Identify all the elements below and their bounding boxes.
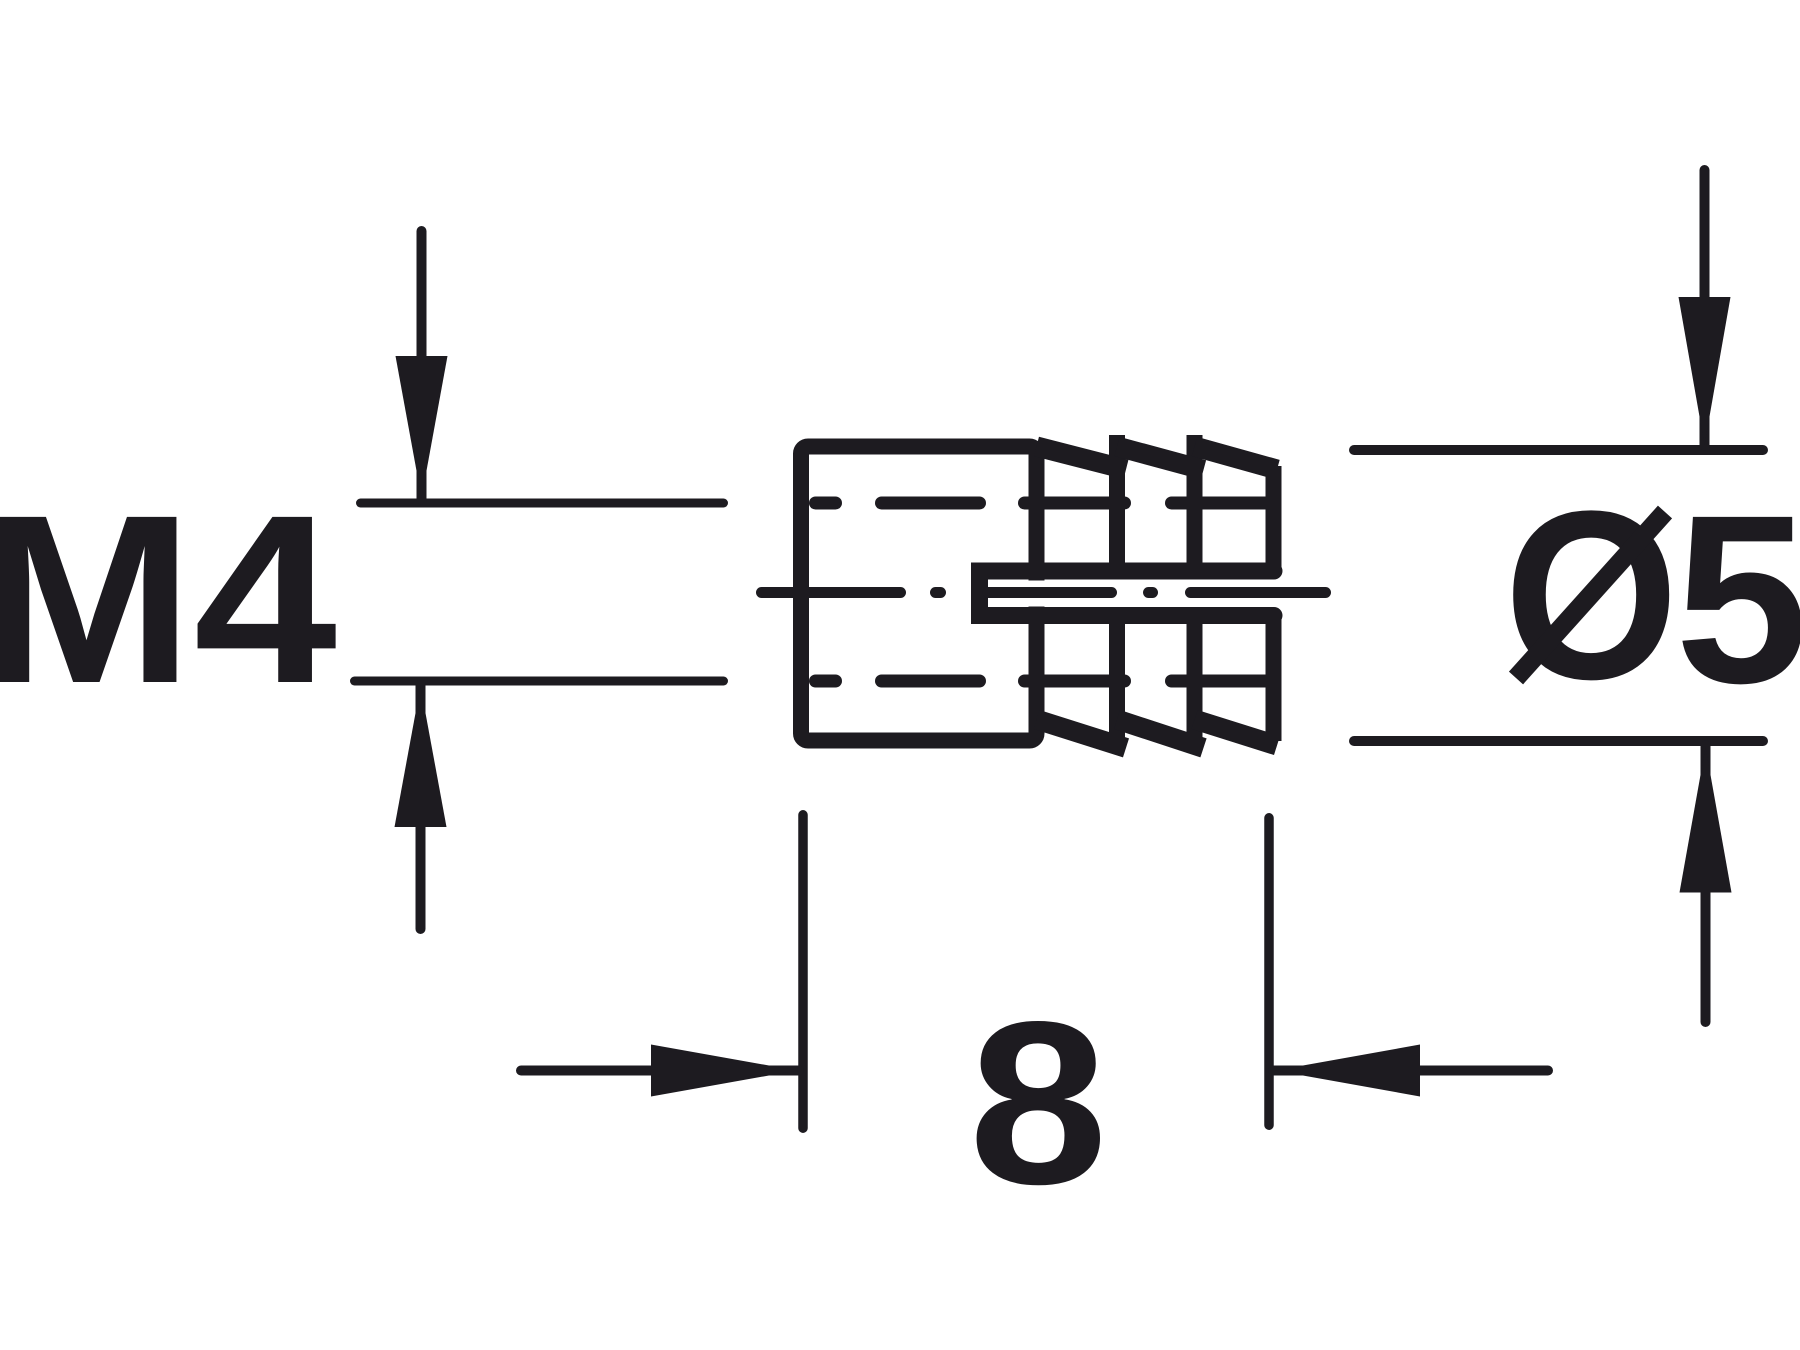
8 dimension arrow right head <box>1275 1045 1420 1097</box>
thread dashed line top <box>816 497 1268 510</box>
M4 dimension arrow top head <box>396 356 448 498</box>
svg-text:8: 8 <box>969 974 1108 1233</box>
slash of diameter symbol <box>1516 512 1665 678</box>
M4 dimension arrow top shaft <box>417 231 427 500</box>
right edge top <box>1266 466 1282 571</box>
expansion slot <box>980 571 1275 616</box>
Ø5 dimension arrow bottom shaft <box>1701 745 1711 1022</box>
M4 extension line top <box>361 499 724 508</box>
Ø5 dimension arrow bottom head <box>1680 747 1732 893</box>
rib fin 1 top diagonal <box>1037 447 1127 470</box>
M4 dimension arrow bottom head <box>395 686 447 827</box>
rib fin 3 bottom staff <box>1187 616 1203 752</box>
8 dimension arrow left head <box>651 1045 797 1097</box>
centerline dash-dot <box>762 587 1326 598</box>
rib fin 2 bottom staff <box>1109 616 1125 752</box>
right edge bottom <box>1266 616 1282 742</box>
rib fin 2 top diagonal <box>1117 447 1204 470</box>
rib fin 3 top diagonal <box>1195 447 1278 470</box>
slot channel interior <box>988 581 1266 607</box>
8 extension line right <box>1264 818 1274 1125</box>
rib fin 3 top staff <box>1187 435 1203 571</box>
8 dimension arrow right shaft <box>1273 1066 1548 1076</box>
rib fin 1 bottom diagonal <box>1037 720 1127 748</box>
svg-text:M4: M4 <box>0 465 337 733</box>
Ø5 extension line top <box>1354 445 1763 455</box>
Ø5 dimension arrow top head <box>1679 297 1731 445</box>
Ø5 dimension arrow top shaft <box>1700 170 1710 446</box>
rib fin 2 top staff <box>1109 435 1125 571</box>
Ø5 extension line bottom <box>1354 736 1763 746</box>
rib fin 3 bottom diagonal <box>1195 720 1278 746</box>
M4 extension line bottom <box>355 677 724 686</box>
thread dashed line bottom <box>816 675 1268 688</box>
M4 dimension arrow bottom shaft <box>416 684 426 929</box>
8 extension line left <box>798 815 808 1128</box>
8 dimension arrow left shaft <box>521 1066 799 1076</box>
rib fin 2 bottom diagonal <box>1117 720 1204 748</box>
svg-text:5: 5 <box>1675 465 1800 733</box>
insert body cylinder outline <box>801 447 1037 741</box>
